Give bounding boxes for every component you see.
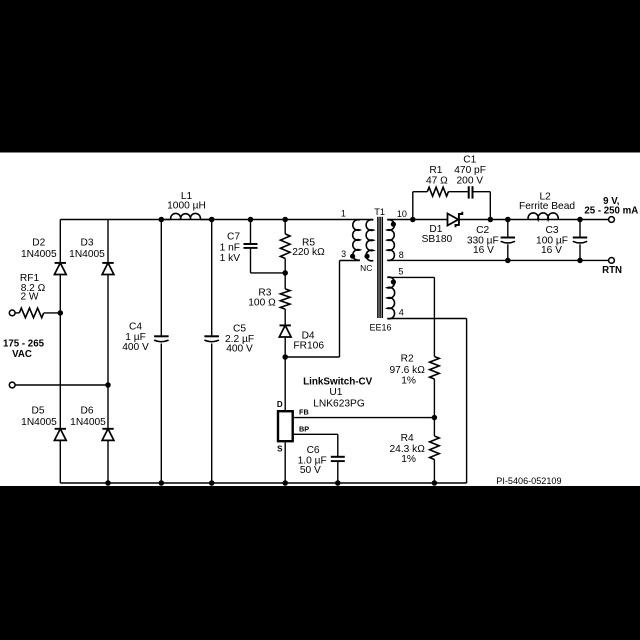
svg-text:1: 1 bbox=[341, 209, 346, 219]
transformer primary winding B bbox=[366, 220, 373, 261]
svg-text:C2: C2 bbox=[476, 225, 489, 236]
svg-text:PI-5406-052109: PI-5406-052109 bbox=[496, 476, 561, 486]
resistor R2 bbox=[430, 357, 440, 380]
svg-text:2 W: 2 W bbox=[20, 292, 38, 303]
svg-text:R2: R2 bbox=[401, 354, 414, 365]
transformer secondary winding bbox=[387, 220, 394, 261]
svg-text:D5: D5 bbox=[31, 405, 44, 416]
svg-text:R1: R1 bbox=[429, 165, 442, 176]
svg-text:VAC: VAC bbox=[12, 349, 32, 360]
svg-text:400 V: 400 V bbox=[226, 344, 253, 355]
capacitor C2 bbox=[507, 220, 509, 238]
node C4 bottom junction bbox=[159, 480, 165, 486]
svg-text:FB: FB bbox=[299, 407, 309, 416]
svg-text:C7: C7 bbox=[227, 232, 240, 243]
svg-text:LNK623PG: LNK623PG bbox=[313, 398, 365, 409]
svg-text:SB180: SB180 bbox=[422, 234, 453, 245]
svg-text:1000 µH: 1000 µH bbox=[167, 201, 206, 212]
svg-text:D: D bbox=[277, 400, 283, 409]
svg-text:8: 8 bbox=[399, 250, 404, 260]
right bridge vertical wire (D3/D6 column) bbox=[107, 220, 109, 484]
svg-text:C4: C4 bbox=[129, 321, 142, 332]
diode D1 bbox=[448, 214, 459, 226]
snubber mid wire bbox=[448, 191, 467, 193]
svg-text:1N4005: 1N4005 bbox=[21, 417, 57, 428]
node snubber left junction bbox=[410, 217, 416, 223]
input terminal 2 bbox=[9, 382, 15, 388]
svg-text:200 V: 200 V bbox=[456, 175, 483, 186]
svg-text:U1: U1 bbox=[329, 387, 342, 398]
node C2 top junction bbox=[505, 217, 511, 223]
svg-text:C6: C6 bbox=[307, 445, 320, 456]
svg-text:D3: D3 bbox=[80, 237, 93, 248]
resistor R3 bbox=[284, 273, 286, 289]
svg-text:3: 3 bbox=[341, 249, 346, 259]
wire pin 4 to ground rail bbox=[387, 318, 466, 320]
svg-text:1N4005: 1N4005 bbox=[69, 249, 105, 260]
wire L1 right stub bbox=[200, 219, 211, 221]
wire pin 10 to D1 bbox=[387, 219, 447, 221]
snubber branch wire left bbox=[412, 192, 414, 220]
svg-text:D6: D6 bbox=[80, 405, 93, 416]
wire pin 5 to R2 bbox=[387, 276, 434, 278]
primary phase dot A bbox=[350, 254, 355, 259]
svg-text:1N4005: 1N4005 bbox=[70, 417, 106, 428]
svg-text:NC: NC bbox=[360, 263, 372, 273]
snubber branch wire right bbox=[474, 191, 491, 193]
diode D2 bbox=[55, 262, 66, 264]
svg-text:C3: C3 bbox=[545, 225, 558, 236]
resistor RF1 bbox=[19, 308, 43, 318]
svg-text:S: S bbox=[277, 445, 283, 454]
node C3 top junction bbox=[577, 217, 583, 223]
diode D6 bbox=[102, 428, 113, 430]
svg-text:1%: 1% bbox=[401, 454, 416, 465]
node FB junction bbox=[432, 415, 438, 421]
svg-text:1 kV: 1 kV bbox=[220, 253, 241, 264]
svg-text:FR106: FR106 bbox=[293, 341, 324, 352]
wire input2 to D3/D6 node bbox=[15, 384, 108, 386]
svg-text:97.6 kΩ: 97.6 kΩ bbox=[390, 365, 426, 376]
transformer core bbox=[378, 217, 382, 318]
capacitor C7 bbox=[250, 220, 252, 244]
wire drain to primary pin 3 bbox=[285, 356, 339, 358]
svg-text:16 V: 16 V bbox=[541, 245, 562, 256]
node U1 source junction bbox=[282, 480, 288, 486]
transformer bias winding bbox=[387, 277, 394, 319]
left bridge vertical wire (D2/D5 column) bbox=[59, 220, 61, 484]
secondary phase dot bbox=[391, 222, 396, 227]
svg-text:C1: C1 bbox=[463, 155, 476, 166]
node C3 bottom junction bbox=[577, 258, 583, 264]
output terminal RTN bbox=[609, 258, 615, 264]
node R5 top junction bbox=[282, 217, 288, 223]
bottom DC- rail wire bbox=[60, 482, 466, 484]
diode D5 bbox=[55, 428, 66, 430]
svg-text:BP: BP bbox=[299, 424, 309, 433]
node C5 bottom junction bbox=[209, 480, 215, 486]
svg-text:4: 4 bbox=[399, 308, 404, 318]
node C2 bottom junction bbox=[505, 258, 511, 264]
node C7 top junction bbox=[248, 217, 254, 223]
svg-text:T1: T1 bbox=[374, 207, 385, 217]
resistor R1 bbox=[427, 187, 448, 196]
white schematic canvas bbox=[0, 153, 640, 487]
node C4 top junction bbox=[159, 217, 165, 223]
transformer primary winding A bbox=[353, 220, 360, 260]
svg-text:10: 10 bbox=[397, 209, 407, 219]
svg-text:50 V: 50 V bbox=[300, 465, 321, 476]
svg-text:EE16: EE16 bbox=[369, 323, 391, 333]
wire BP line bbox=[293, 433, 337, 435]
svg-text:16 V: 16 V bbox=[473, 245, 494, 256]
node C6 bottom junction bbox=[335, 480, 341, 486]
svg-text:47 Ω: 47 Ω bbox=[426, 175, 448, 186]
top DC+ rail wire bbox=[60, 219, 373, 221]
svg-text:LinkSwitch-CV: LinkSwitch-CV bbox=[303, 376, 373, 387]
svg-text:175 - 265: 175 - 265 bbox=[3, 339, 45, 350]
wire L1 left stub bbox=[161, 219, 171, 221]
wire FB line bbox=[293, 417, 434, 419]
node R5-C7-R3 junction bbox=[282, 270, 288, 276]
svg-text:220 kΩ: 220 kΩ bbox=[292, 247, 325, 258]
svg-text:25 - 250 mA: 25 - 250 mA bbox=[584, 205, 638, 216]
node input2-D3/D6 junction bbox=[105, 382, 111, 388]
output rail wire bbox=[459, 219, 609, 221]
svg-text:1 nF: 1 nF bbox=[220, 242, 240, 253]
wire U1 drain bbox=[284, 357, 286, 410]
svg-text:100 Ω: 100 Ω bbox=[248, 297, 276, 308]
op-amp U1 LinkSwitch-CV body bbox=[278, 411, 293, 441]
node C5 top junction bbox=[209, 217, 215, 223]
svg-text:C5: C5 bbox=[233, 324, 246, 335]
svg-text:RTN: RTN bbox=[602, 265, 622, 276]
svg-text:D2: D2 bbox=[32, 237, 45, 248]
resistor R4 bbox=[433, 418, 435, 436]
node D6 bottom junction bbox=[105, 480, 111, 486]
node RF1-D2 junction bbox=[58, 310, 64, 316]
capacitor C6 bbox=[331, 456, 345, 458]
node R4 bottom junction bbox=[432, 480, 438, 486]
svg-text:400 V: 400 V bbox=[122, 342, 149, 353]
output terminal + bbox=[609, 217, 615, 223]
wire pin 8 return rail bbox=[387, 259, 609, 261]
capacitor C4 bbox=[160, 220, 162, 337]
svg-text:1N4005: 1N4005 bbox=[21, 249, 57, 260]
svg-text:R4: R4 bbox=[401, 433, 414, 444]
wire U1 source bbox=[284, 442, 286, 483]
svg-text:Ferrite Bead: Ferrite Bead bbox=[519, 201, 575, 212]
diode D3 bbox=[102, 262, 113, 264]
capacitor C3 bbox=[579, 220, 581, 238]
diode D4 bbox=[280, 324, 291, 326]
primary phase dot B bbox=[364, 254, 369, 259]
node snubber right junction bbox=[488, 217, 494, 223]
node drain junction bbox=[282, 354, 288, 360]
input terminal 1 bbox=[9, 310, 15, 316]
inductor L2 ferrite bead bbox=[528, 213, 558, 220]
svg-text:5: 5 bbox=[398, 267, 403, 277]
svg-text:1%: 1% bbox=[401, 376, 416, 387]
inductor L1 bbox=[171, 213, 201, 219]
capacitor C1 bbox=[468, 186, 470, 198]
capacitor C5 bbox=[211, 220, 213, 337]
bias phase dot bbox=[391, 279, 396, 284]
resistor R5 bbox=[284, 220, 286, 234]
